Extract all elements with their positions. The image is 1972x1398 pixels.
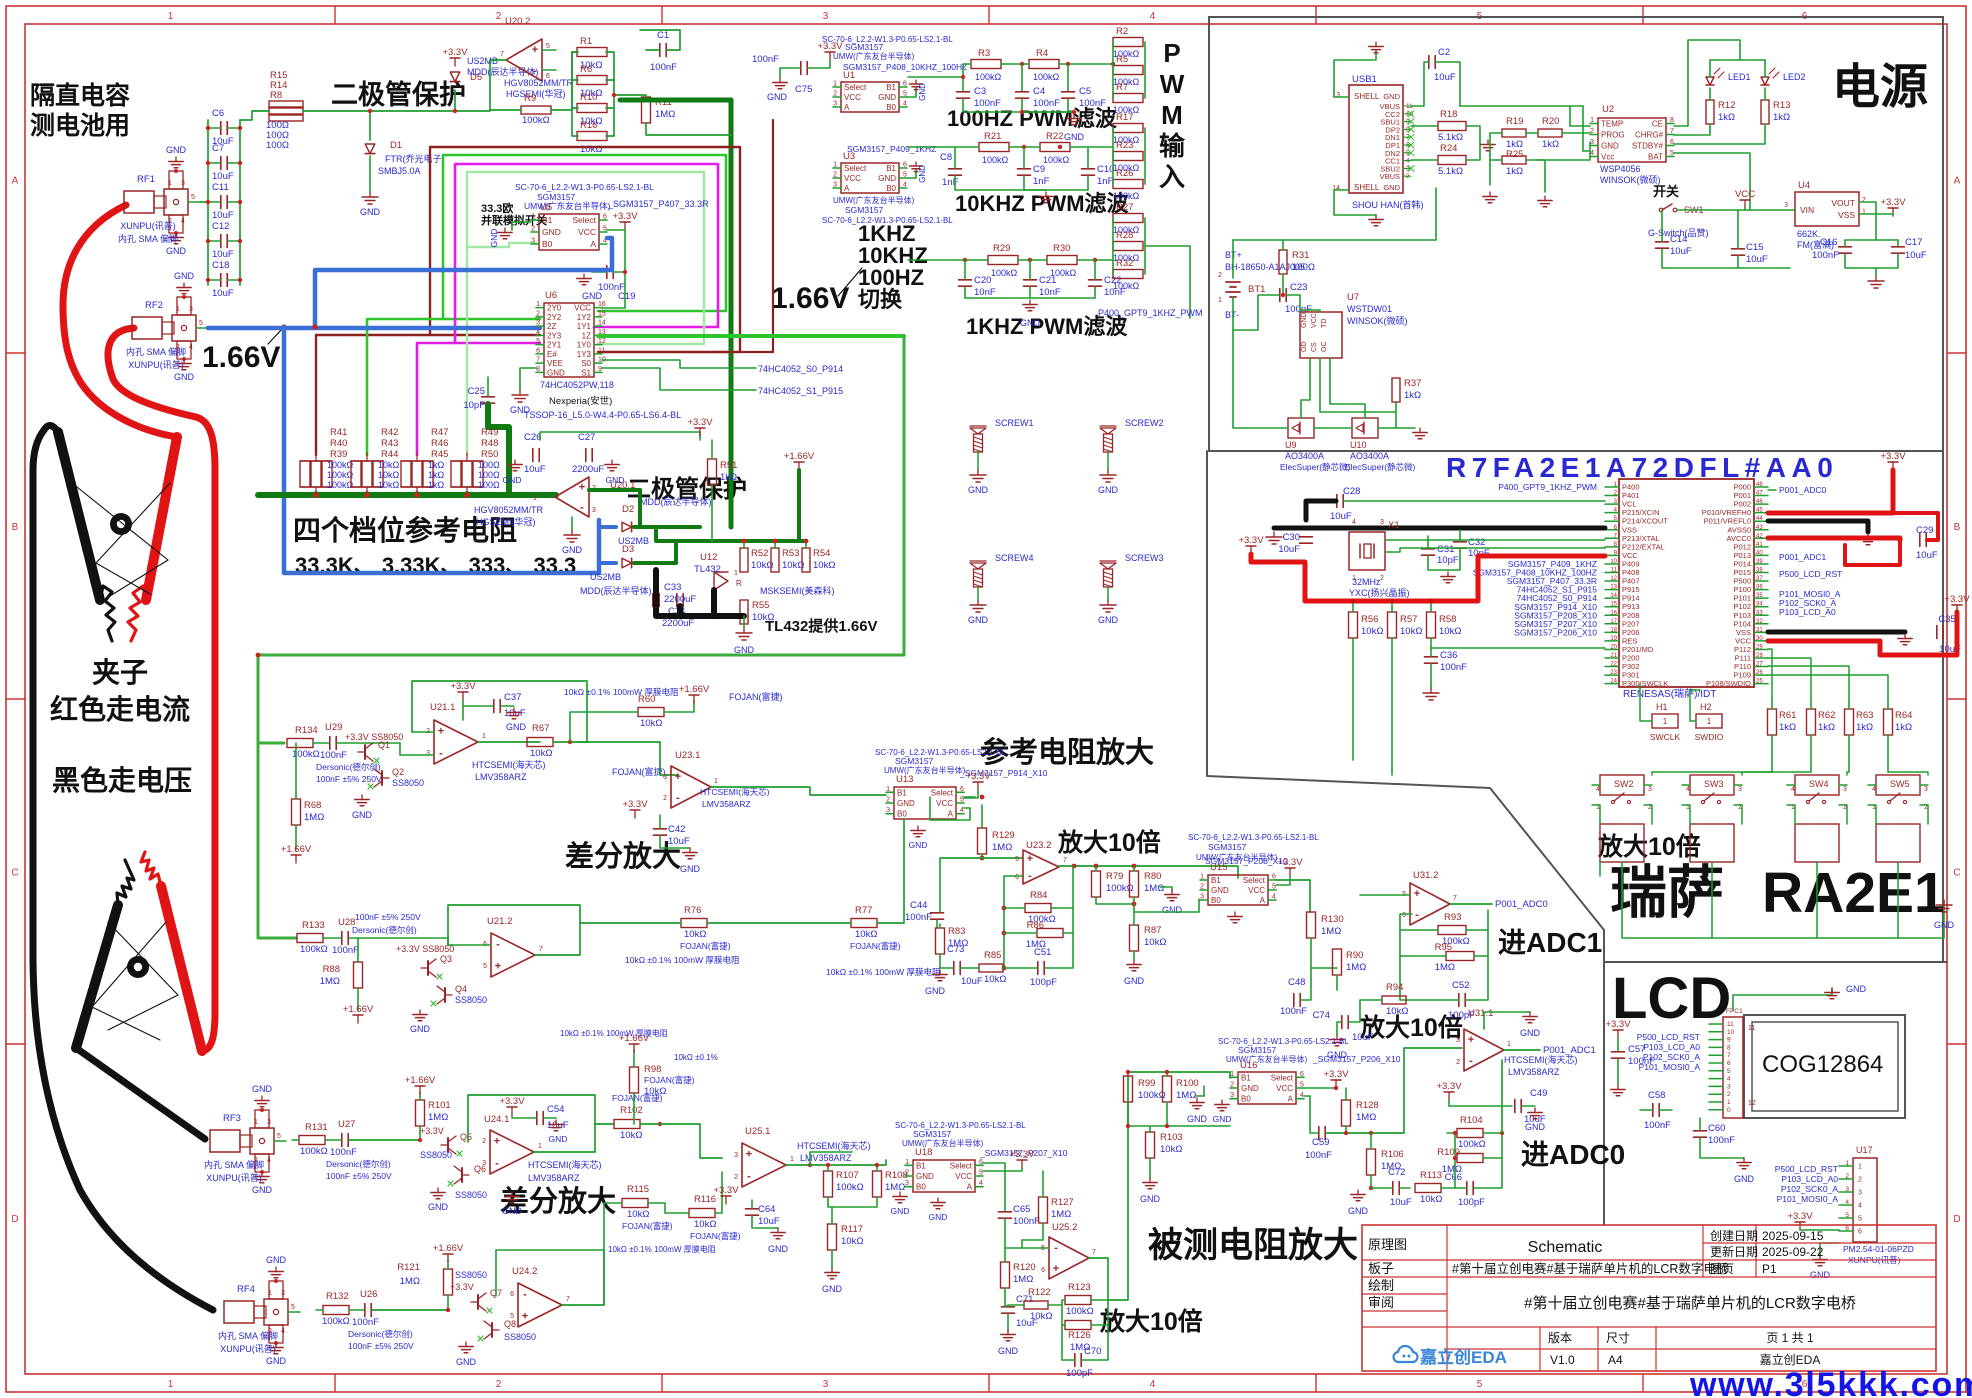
svg-text:3: 3: [833, 101, 837, 108]
svg-text:4: 4: [181, 218, 185, 225]
svg-text:4: 4: [1791, 786, 1795, 793]
svg-text:VCC: VCC: [844, 93, 861, 102]
svg-text:SGM3157_P208_X10: SGM3157_P208_X10: [1205, 856, 1288, 866]
svg-text:HTCSEMI(海天芯): HTCSEMI(海天芯): [472, 759, 546, 770]
svg-text:100nF: 100nF: [1013, 1216, 1040, 1227]
svg-text:100kΩ: 100kΩ: [522, 115, 550, 126]
resistor R99: [1124, 1076, 1133, 1102]
svg-text:11: 11: [1611, 568, 1618, 574]
svg-text:U24.2: U24.2: [512, 1266, 537, 1277]
svg-text:3: 3: [1230, 1092, 1234, 1099]
ground below U20.1: [571, 517, 573, 530]
svg-text:45: 45: [1756, 508, 1763, 514]
svg-text:2: 2: [496, 1379, 502, 1390]
svg-text:XUNPU(讯普): XUNPU(讯普): [206, 1172, 262, 1183]
power flag +3.3V above D5: [454, 58, 456, 66]
svg-text:原理图: 原理图: [1368, 1237, 1407, 1252]
svg-text:5: 5: [536, 338, 540, 345]
svg-text:R130: R130: [1321, 914, 1344, 925]
svg-text:R5: R5: [1116, 54, 1128, 65]
svg-text:R29: R29: [993, 243, 1010, 254]
svg-text:100Ω: 100Ω: [478, 480, 500, 490]
resistor R98 to +1.66V: [630, 1067, 639, 1093]
resistor R6: [577, 76, 607, 85]
U16 vcc flag: [1335, 1080, 1337, 1088]
svg-text:2: 2: [1862, 197, 1866, 204]
capacitor C27 polarized: [585, 449, 587, 462]
svg-text:10KHZ PWM滤波: 10KHZ PWM滤波: [955, 191, 1130, 216]
svg-text:1: 1: [1862, 209, 1866, 216]
svg-text:5: 5: [277, 1133, 281, 1140]
svg-text:UMW(广东友台半导体): UMW(广东友台半导体): [884, 765, 966, 775]
svg-text:R68: R68: [304, 800, 321, 811]
svg-text:C51: C51: [1034, 947, 1051, 958]
screw SCREW4: [970, 563, 986, 569]
svg-text:1: 1: [531, 214, 535, 221]
svg-text:U20.2: U20.2: [505, 16, 530, 27]
svg-text:SCREW2: SCREW2: [1125, 418, 1164, 428]
svg-text:1MΩ: 1MΩ: [1013, 1274, 1033, 1285]
svg-text:1Y2: 1Y2: [577, 313, 592, 322]
svg-text:5.1kΩ: 5.1kΩ: [1438, 166, 1463, 177]
svg-text:+3.3V: +3.3V: [420, 1126, 444, 1136]
svg-text:瑞萨: 瑞萨: [1610, 861, 1724, 925]
svg-text:A: A: [844, 184, 850, 193]
svg-text:Dersonic(德尔创): Dersonic(德尔创): [352, 925, 417, 935]
svg-text:2: 2: [1230, 1082, 1234, 1089]
svg-text:2: 2: [536, 310, 540, 317]
svg-text:6: 6: [1670, 139, 1674, 146]
svg-text:A4: A4: [1608, 1353, 1623, 1367]
svg-text:R3: R3: [978, 48, 990, 59]
svg-text:GND: GND: [166, 145, 187, 155]
svg-text:SS8050: SS8050: [392, 778, 424, 788]
resistor R58: [1427, 612, 1436, 638]
svg-text:3: 3: [823, 11, 829, 22]
U31.2 input wires: [1360, 894, 1410, 896]
transistor Q5: [447, 1138, 449, 1152]
svg-text:2: 2: [496, 11, 502, 22]
svg-text:10kΩ: 10kΩ: [644, 1086, 666, 1097]
svg-text:4: 4: [1596, 786, 1600, 793]
svg-text:SWDIO: SWDIO: [1695, 732, 1724, 742]
svg-text:夹子: 夹子: [92, 657, 148, 688]
svg-text:7: 7: [500, 51, 504, 58]
U25.1 output to divider: [786, 1164, 810, 1166]
svg-text:B1: B1: [916, 1161, 926, 1170]
svg-text:R46: R46: [431, 438, 448, 449]
svg-text:A: A: [12, 176, 19, 187]
svg-text:FOJAN(富捷): FOJAN(富捷): [729, 691, 783, 702]
resistor R129 second gain stage: [978, 828, 987, 854]
svg-text:10kΩ ±0.1% 100mW 厚膜电阻: 10kΩ ±0.1% 100mW 厚膜电阻: [625, 955, 740, 965]
svg-text:100HZ PWM滤波: 100HZ PWM滤波: [947, 106, 1118, 131]
lower input chain RF4 to U24.2: [323, 1306, 349, 1315]
svg-text:R51: R51: [720, 460, 737, 471]
U21.1 power and C37: [462, 692, 464, 700]
svg-text:红色走电流: 红色走电流: [50, 693, 190, 725]
svg-text:GND: GND: [878, 174, 896, 183]
svg-text:+: +: [438, 726, 444, 738]
svg-text:12: 12: [1610, 576, 1617, 582]
svg-text:C27: C27: [578, 432, 595, 443]
svg-text:+3.3V: +3.3V: [687, 417, 713, 428]
svg-text:SHELL: SHELL: [1354, 92, 1380, 101]
svg-text:6: 6: [1845, 1225, 1849, 1232]
svg-text:U17: U17: [1856, 1145, 1873, 1155]
svg-text:2Y0: 2Y0: [547, 304, 562, 313]
100hz filter rc network: [971, 60, 1001, 69]
svg-text:B1: B1: [886, 83, 896, 92]
svg-text:C17: C17: [1905, 237, 1922, 248]
svg-text:R54: R54: [813, 548, 830, 559]
svg-text:33: 33: [1756, 610, 1763, 616]
svg-text:1kΩ: 1kΩ: [1718, 112, 1735, 123]
svg-text:2: 2: [482, 1138, 486, 1145]
svg-text:R115: R115: [627, 1184, 649, 1195]
svg-text:100kΩ: 100kΩ: [327, 480, 354, 490]
svg-text:+1.66V: +1.66V: [281, 844, 312, 855]
wire up to U31.1 plus input: [1404, 1048, 1462, 1133]
svg-text:R128: R128: [1356, 1100, 1379, 1111]
svg-text:C10: C10: [1097, 164, 1114, 175]
capacitor C75 with +3.3V: [800, 62, 802, 75]
lower red alligator clip: [161, 886, 202, 1051]
svg-text:R44: R44: [381, 449, 398, 460]
resistors R79 R80: [1092, 871, 1101, 897]
svg-text:14: 14: [598, 320, 606, 327]
svg-text:USB1: USB1: [1352, 74, 1377, 85]
svg-text:36: 36: [1756, 585, 1763, 591]
svg-text:+3.3V: +3.3V: [1787, 1211, 1813, 1222]
svg-text:U12: U12: [700, 552, 717, 563]
svg-text:TL432提供1.66V: TL432提供1.66V: [765, 617, 878, 635]
svg-text:100pF: 100pF: [1458, 1197, 1485, 1208]
svg-text:R98: R98: [644, 1064, 661, 1075]
transistor Q8: [491, 1323, 493, 1337]
resistor R16: [577, 132, 607, 141]
svg-text:U2: U2: [1602, 104, 1614, 115]
svg-text:100nF: 100nF: [1644, 1120, 1671, 1131]
resistor R64: [1884, 709, 1893, 735]
transistor Q1: [364, 745, 366, 759]
svg-text:4: 4: [903, 101, 907, 108]
svg-text:1MΩ: 1MΩ: [428, 1112, 448, 1123]
op-amp U20.1: [555, 477, 589, 517]
svg-text:C25: C25: [468, 386, 485, 397]
svg-text:10nF: 10nF: [974, 287, 996, 298]
svg-text:A: A: [1954, 176, 1961, 187]
svg-text:2Z: 2Z: [547, 322, 556, 331]
svg-text:B1: B1: [542, 215, 553, 225]
svg-text:MDD(辰达半导体): MDD(辰达半导体): [580, 585, 652, 596]
op-amp U24.1: [490, 1130, 534, 1174]
svg-text:2: 2: [1845, 1173, 1849, 1180]
capacitor C5 100nF: [1062, 91, 1075, 93]
wires mcu P112..P109 to switch columns: [1768, 649, 1772, 700]
svg-text:12: 12: [1748, 1100, 1756, 1107]
svg-text:GND: GND: [266, 1356, 287, 1366]
svg-text:C70: C70: [1084, 1346, 1101, 1357]
svg-text:R23: R23: [1116, 140, 1133, 151]
svg-text:HGSEMI(华冠): HGSEMI(华冠): [476, 516, 536, 527]
svg-text:2Y1: 2Y1: [547, 341, 562, 350]
svg-text:CS: CS: [1311, 342, 1318, 352]
svg-text:Q2: Q2: [392, 767, 404, 777]
svg-text:10kΩ: 10kΩ: [752, 612, 774, 623]
wire pwm output to mcu net: [1145, 246, 1190, 318]
svg-text:40: 40: [1756, 550, 1763, 556]
connector RF3: [210, 1130, 240, 1152]
svg-text:P103_LCD_A0: P103_LCD_A0: [1779, 607, 1836, 617]
svg-text:6: 6: [979, 1159, 983, 1166]
svg-text:100nF: 100nF: [752, 54, 779, 65]
svg-text:+3.3V: +3.3V: [965, 771, 991, 782]
svg-text:10pF: 10pF: [463, 400, 485, 411]
svg-text:GND: GND: [768, 1244, 789, 1254]
svg-text:3: 3: [281, 1290, 285, 1297]
svg-text:RF1: RF1: [137, 174, 155, 185]
svg-text:8: 8: [1670, 117, 1674, 124]
mosfet U10: [1352, 418, 1378, 438]
svg-text:LMV358ARZ: LMV358ARZ: [1508, 1067, 1560, 1077]
capacitor C15: [1732, 248, 1745, 250]
svg-text:Select: Select: [1243, 876, 1266, 885]
resistor R131: [299, 1136, 325, 1145]
svg-text:+: +: [675, 771, 681, 783]
svg-text:D2: D2: [622, 504, 634, 515]
svg-text:C31: C31: [1437, 544, 1454, 555]
capacitor C20 10nF: [959, 279, 972, 281]
svg-text:38: 38: [1756, 568, 1763, 574]
net stubs 74HC4052 S0 S1: [602, 360, 756, 368]
svg-text:VEE: VEE: [547, 359, 563, 368]
svg-text:C60: C60: [1708, 1123, 1725, 1134]
svg-text:GND: GND: [174, 271, 195, 281]
svg-text:100nF: 100nF: [1033, 98, 1060, 109]
svg-text:Vcc: Vcc: [1601, 153, 1614, 162]
svg-text:C7: C7: [212, 143, 224, 154]
svg-text:6: 6: [603, 214, 607, 221]
protection wires: [1233, 330, 1288, 428]
svg-text:46: 46: [1756, 499, 1763, 505]
svg-text:GND: GND: [503, 475, 522, 485]
connector RF1: [124, 191, 154, 213]
svg-text:+3.3V: +3.3V: [499, 1096, 525, 1107]
svg-text:3: 3: [1845, 1186, 1849, 1193]
svg-text:14: 14: [1610, 593, 1617, 599]
svg-text:34: 34: [1756, 602, 1763, 608]
svg-text:15: 15: [598, 310, 606, 317]
svg-text:1: 1: [168, 1379, 174, 1390]
svg-text:UMW(广东友台半导体): UMW(广东友台半导体): [1226, 1054, 1308, 1064]
svg-text:C23: C23: [1290, 282, 1307, 293]
svg-text:C20: C20: [974, 275, 991, 286]
U17 power: [1799, 1222, 1801, 1230]
svg-text:29: 29: [1756, 644, 1763, 650]
svg-text:GND: GND: [1520, 1028, 1541, 1038]
svg-text:A: A: [967, 1183, 973, 1192]
resistor R63: [1845, 709, 1854, 735]
lower clip pivot ring: [127, 956, 149, 978]
lcd fpc connector FPC1: [1723, 1017, 1743, 1118]
resistor R17: [1113, 124, 1143, 133]
resistor R117: [828, 1224, 837, 1250]
svg-text:R42: R42: [381, 427, 398, 438]
svg-text:C21: C21: [1039, 275, 1056, 286]
svg-text:FOJAN(富捷): FOJAN(富捷): [622, 1221, 673, 1231]
diode D5: [450, 72, 460, 82]
resistor bank R42 R43 R44: [351, 461, 361, 487]
svg-text:4: 4: [1727, 1076, 1731, 1083]
transistor Q2: [381, 771, 383, 785]
svg-text:B1: B1: [1241, 1073, 1251, 1082]
analog switch U13: [894, 787, 956, 819]
svg-text:U29: U29: [325, 722, 342, 733]
svg-text:1: 1: [254, 1119, 258, 1126]
usb shell grounds: [1334, 50, 1376, 97]
charger left wires: [1570, 106, 1590, 126]
svg-text:R63: R63: [1856, 710, 1873, 721]
svg-text:B1: B1: [886, 164, 896, 173]
svg-text:1kΩ: 1kΩ: [428, 460, 445, 470]
svg-text:10uF: 10uF: [212, 171, 234, 182]
svg-text:C6: C6: [212, 108, 224, 119]
svg-text:1kΩ: 1kΩ: [1856, 722, 1873, 733]
svg-text:C28: C28: [1343, 486, 1360, 497]
svg-text:C: C: [1953, 868, 1960, 879]
blue wire to lower blue loop: [284, 327, 599, 573]
svg-text:GND: GND: [1140, 1194, 1161, 1204]
svg-text:GND: GND: [1162, 905, 1183, 915]
svg-text:7: 7: [566, 1296, 570, 1303]
regulator U4: [1795, 192, 1859, 226]
svg-text:+3.3V: +3.3V: [1944, 594, 1970, 605]
svg-text:PM2.54-01-06PZD: PM2.54-01-06PZD: [1843, 1244, 1914, 1254]
wire U6 vcc to top: [602, 307, 625, 309]
svg-text:Select: Select: [572, 215, 596, 225]
svg-text:U18: U18: [915, 1147, 932, 1158]
svg-text:100pF: 100pF: [1066, 1368, 1093, 1379]
svg-text:内孔 SMA 偏脚: 内孔 SMA 偏脚: [218, 1330, 278, 1341]
svg-text:R100: R100: [1176, 1078, 1199, 1089]
svg-text:100nF: 100nF: [330, 1147, 357, 1158]
svg-text:100nF: 100nF: [332, 945, 359, 956]
svg-text:C65: C65: [1013, 1204, 1030, 1215]
svg-text:100nF: 100nF: [1305, 1150, 1332, 1161]
resistor R61: [1768, 709, 1777, 735]
svg-text:1: 1: [1845, 1160, 1849, 1167]
svg-text:5: 5: [1845, 1212, 1849, 1219]
svg-text:R57: R57: [1400, 614, 1417, 625]
svg-text:C66: C66: [1445, 1172, 1462, 1183]
svg-text:C30: C30: [1283, 532, 1300, 543]
svg-text:10uF: 10uF: [1352, 1032, 1374, 1043]
svg-text:WSP4056: WSP4056: [1600, 164, 1641, 174]
svg-text:VSS: VSS: [1838, 210, 1855, 220]
capacitor C74: [1341, 1016, 1343, 1029]
svg-text:C26: C26: [524, 432, 541, 443]
svg-text:+1.66V: +1.66V: [343, 1004, 374, 1015]
svg-text:4: 4: [979, 1180, 983, 1187]
svg-text:GND: GND: [822, 1284, 843, 1294]
svg-text:U23.1: U23.1: [675, 750, 700, 761]
svg-text:74HC4052_S1_P915: 74HC4052_S1_P915: [758, 386, 843, 396]
svg-text:开关: 开关: [1653, 184, 1679, 199]
svg-text:7: 7: [1063, 857, 1067, 864]
svg-text:进ADC0: 进ADC0: [1521, 1139, 1625, 1170]
capacitor C73: [953, 962, 955, 975]
resistor R127: [1039, 1197, 1048, 1223]
svg-text:1: 1: [1663, 717, 1668, 726]
svg-text:SC-70-6_L2.2-W1.3-P0.65-LS2.1-: SC-70-6_L2.2-W1.3-P0.65-LS2.1-BL: [822, 35, 953, 44]
svg-text:SGM3157_P408_10KHZ_100HZ: SGM3157_P408_10KHZ_100HZ: [843, 62, 967, 72]
svg-text:+: +: [494, 1136, 500, 1148]
svg-text:C1: C1: [657, 30, 669, 41]
svg-text:R7: R7: [1116, 82, 1128, 93]
svg-text:Dersonic(德尔创): Dersonic(德尔创): [316, 762, 381, 772]
svg-text:R8: R8: [270, 90, 282, 101]
svg-text:P103_LCD_A0: P103_LCD_A0: [1643, 1042, 1700, 1052]
svg-text:放大10倍: 放大10倍: [1057, 828, 1161, 857]
capacitor C48: [1293, 994, 1295, 1007]
svg-text:3: 3: [1380, 519, 1384, 526]
svg-text:6: 6: [510, 1291, 514, 1298]
svg-text:+3.3V: +3.3V: [1605, 1019, 1631, 1030]
svg-text:+: +: [1414, 888, 1420, 900]
capacitor C1: [659, 44, 661, 57]
svg-text:GND: GND: [878, 93, 896, 102]
svg-text:19: 19: [1610, 636, 1617, 642]
svg-text:R24: R24: [1440, 143, 1457, 154]
svg-text:嘉立创EDA: 嘉立创EDA: [1760, 1352, 1821, 1367]
svg-text:C57: C57: [1628, 1044, 1645, 1055]
upper red alligator clip: [146, 437, 177, 600]
svg-text:5: 5: [191, 194, 195, 201]
svg-text:1Y1: 1Y1: [577, 322, 592, 331]
resistor R94: [1382, 996, 1406, 1004]
svg-text:RF2: RF2: [145, 300, 163, 311]
capacitor C51: [1037, 962, 1039, 975]
svg-text:2200uF: 2200uF: [572, 464, 604, 475]
svg-text:10kΩ: 10kΩ: [694, 1219, 716, 1230]
svg-text:U24.1: U24.1: [484, 1114, 509, 1125]
svg-text:C: C: [11, 868, 18, 879]
svg-text:GND: GND: [1301, 312, 1308, 328]
svg-text:SCREW1: SCREW1: [995, 418, 1034, 428]
svg-text:16: 16: [1610, 610, 1617, 616]
svg-text:1kΩ: 1kΩ: [1404, 390, 1421, 401]
U31.1 output: [1504, 1049, 1540, 1051]
svg-text:VCC: VCC: [936, 799, 953, 808]
resistor R55: [740, 600, 748, 624]
svg-text:SC-70-6_L2.2-W1.3-P0.65-LS2.1-: SC-70-6_L2.2-W1.3-P0.65-LS2.1-BL: [822, 216, 953, 225]
svg-text:2025-09-15: 2025-09-15: [1762, 1229, 1824, 1243]
svg-text:GND: GND: [547, 368, 565, 377]
svg-text:尺寸: 尺寸: [1606, 1331, 1630, 1345]
svg-text:A: A: [948, 810, 954, 819]
svg-text:R122: R122: [1028, 1287, 1051, 1298]
svg-text:3: 3: [426, 750, 430, 757]
svg-text:TL432: TL432: [694, 564, 721, 575]
svg-text:10uF: 10uF: [524, 464, 546, 475]
wire ladder to C1 and R11: [614, 94, 646, 96]
svg-text:3: 3: [1456, 1037, 1460, 1044]
svg-text:100nF ±5% 250V: 100nF ±5% 250V: [326, 1171, 392, 1181]
svg-text:R94: R94: [1386, 982, 1403, 993]
svg-text:Nexperia(安世): Nexperia(安世): [549, 395, 612, 407]
svg-text:1Y0: 1Y0: [577, 341, 592, 350]
